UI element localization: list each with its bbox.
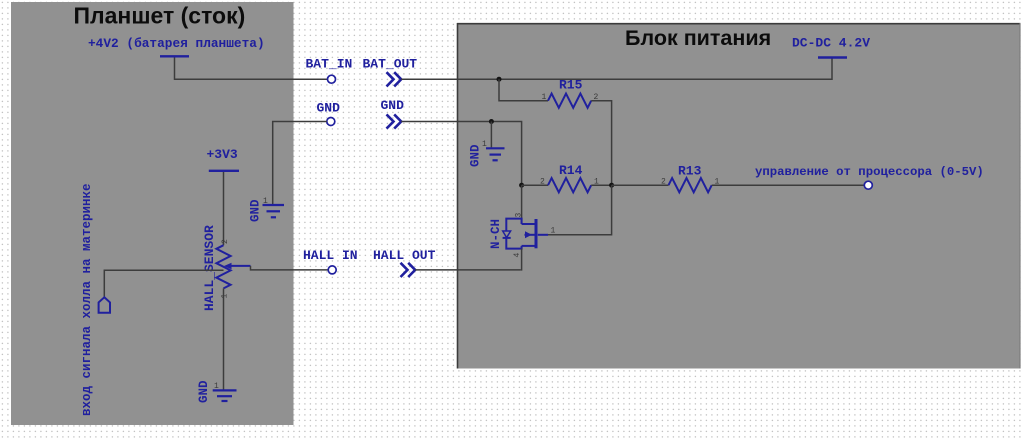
- wire junction to R13: [612, 184, 669, 186]
- port circle BAT_IN: [328, 75, 336, 83]
- power flag +3V3 bar: [209, 170, 239, 172]
- ground symbol (hall): [213, 390, 237, 401]
- hall sensor wiper tail: [231, 265, 251, 267]
- svg-text:HALL_SENSOR: HALL_SENSOR: [202, 225, 217, 311]
- svg-text:R14: R14: [559, 163, 583, 178]
- svg-text:HALL OUT: HALL OUT: [373, 248, 436, 263]
- svg-text:R13: R13: [678, 164, 702, 179]
- transistor Q1 (N-channel MOSFET with body diode): [503, 219, 548, 249]
- wire gate junction down and left to mosfet gate: [548, 185, 612, 235]
- port circle control: [864, 181, 872, 189]
- wire hall tap step: [251, 266, 328, 270]
- ground symbol (power block): [486, 148, 505, 160]
- wire GND chevron into power block: [401, 122, 521, 186]
- svg-text:BAT_IN: BAT_IN: [306, 57, 353, 72]
- svg-text:вход сигнала холла на материнк: вход сигнала холла на материнке: [80, 183, 94, 416]
- wire R13 pin1 to control port: [712, 184, 865, 186]
- svg-text:4: 4: [513, 253, 522, 258]
- svg-text:+4V2 (батарея планшета): +4V2 (батарея планшета): [88, 36, 265, 51]
- wire BAT_OUT to DC-DC: [401, 59, 832, 80]
- svg-text:+3V3: +3V3: [207, 147, 238, 162]
- svg-text:1: 1: [542, 93, 547, 102]
- svg-text:GND: GND: [381, 98, 405, 113]
- svg-text:GND: GND: [197, 380, 211, 403]
- wire HALL OUT to mosfet source: [415, 269, 521, 271]
- svg-text:HALL IN: HALL IN: [303, 248, 358, 263]
- svg-text:2: 2: [221, 239, 230, 244]
- power flag +4V2 bar: [160, 55, 189, 57]
- svg-text:GND: GND: [317, 101, 341, 116]
- resistor R14: [548, 178, 591, 192]
- wire +4V2 stem: [175, 58, 328, 80]
- power supply block background: [457, 23, 1021, 369]
- svg-text:Блок питания: Блок питания: [625, 26, 771, 50]
- resistor R13: [669, 178, 712, 192]
- tablet block background: [11, 2, 294, 425]
- sheet port chevron BAT_OUT: [387, 72, 402, 86]
- ground symbol (tablet): [263, 205, 285, 217]
- wire R14 pin1 to junction: [591, 184, 611, 186]
- wire R15 pin2 down to R14 junction: [591, 101, 611, 186]
- wire hall sensor bottom to ground: [223, 288, 225, 389]
- power supply block border top: [457, 23, 1021, 25]
- wire BAT junction down to R15: [499, 79, 548, 101]
- svg-text:3: 3: [515, 213, 524, 218]
- wire GND junction to ground symbol: [490, 122, 492, 148]
- sheet port chevron GND: [387, 114, 402, 128]
- svg-text:N-CH: N-CH: [489, 219, 503, 249]
- wire +3V3 stem to hall sensor: [223, 172, 225, 245]
- svg-text:1: 1: [551, 227, 556, 236]
- svg-text:BAT_OUT: BAT_OUT: [363, 57, 418, 72]
- svg-text:1: 1: [221, 294, 230, 299]
- wire input port to hall wire: [104, 270, 223, 297]
- sheet port chevron HALL OUT: [401, 263, 416, 277]
- junction node BAT net: [497, 77, 502, 82]
- power flag DC-DC bar: [818, 56, 847, 58]
- svg-text:R15: R15: [559, 78, 583, 93]
- junction node R14 pin2: [519, 183, 524, 188]
- svg-text:управление от процессора (0-5V: управление от процессора (0-5V): [755, 165, 984, 179]
- input port pentagon: [99, 297, 110, 312]
- svg-text:Планшет (сток): Планшет (сток): [74, 3, 246, 29]
- hall sensor wiper arrow: [224, 263, 232, 270]
- wire GND circle to tablet ground: [273, 122, 327, 205]
- svg-text:GND: GND: [469, 144, 483, 167]
- resistor R15: [548, 94, 591, 108]
- junction node gate net: [609, 183, 614, 188]
- wire R14 pin2: [522, 184, 548, 186]
- svg-text:DC-DC 4.2V: DC-DC 4.2V: [792, 36, 870, 51]
- svg-text:2: 2: [661, 178, 666, 187]
- port circle HALL IN: [328, 266, 336, 274]
- junction node GND net: [489, 119, 494, 124]
- svg-text:GND: GND: [249, 199, 263, 222]
- power supply block border right: [1019, 23, 1021, 369]
- wire drain from R14 junction down: [521, 185, 523, 224]
- power supply block border left: [457, 23, 459, 369]
- hall sensor resistor element: [216, 245, 230, 288]
- port circle GND: [327, 118, 335, 126]
- wire source down to hall net: [520, 249, 523, 270]
